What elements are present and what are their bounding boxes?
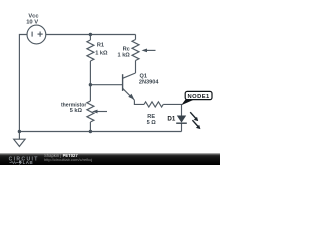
svg-text:5 Ω: 5 Ω [147, 120, 157, 126]
svg-text:R1: R1 [97, 43, 104, 49]
svg-text:D1: D1 [167, 115, 175, 122]
svg-text:10 V: 10 V [26, 19, 38, 25]
svg-text:Rc: Rc [123, 47, 130, 53]
svg-text:2N3904: 2N3904 [139, 80, 159, 86]
svg-text:5 kΩ: 5 kΩ [70, 108, 83, 114]
svg-text:1 kΩ: 1 kΩ [95, 51, 108, 57]
svg-text:1 kΩ: 1 kΩ [118, 53, 131, 59]
svg-text:LAB: LAB [23, 160, 34, 165]
svg-text:NODE1: NODE1 [187, 94, 210, 100]
